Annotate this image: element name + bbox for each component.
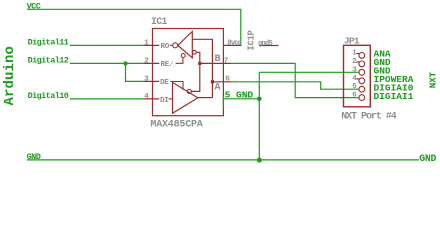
wire receiver A-input: [192, 39, 212, 97]
wire Digital11 to pin 1: [70, 44, 144, 46]
svg-text:GND: GND: [419, 153, 436, 164]
receiver enable bubble: [181, 54, 185, 58]
wire Digital10 to pin 4: [70, 98, 144, 100]
wire pin3 stub: [143, 80, 159, 82]
svg-text:Digital11: Digital11: [28, 38, 69, 48]
svg-text:5: 5: [352, 83, 357, 91]
svg-text:8vcc: 8vcc: [227, 40, 241, 48]
connector JP1 box: [344, 45, 371, 107]
power pin VCC line of IC1P: [223, 44, 241, 46]
svg-text:NXT: NXT: [427, 71, 438, 88]
wire pin1 stub: [143, 44, 159, 46]
svg-text:3: 3: [144, 76, 149, 84]
svg-text:DI: DI: [160, 97, 169, 105]
svg-text:B: B: [215, 54, 221, 65]
svg-text:Digital12: Digital12: [28, 56, 69, 66]
svg-text:1: 1: [352, 49, 357, 57]
svg-text:DIGIAI1: DIGIAI1: [374, 91, 414, 102]
svg-text:Digital10: Digital10: [28, 91, 69, 101]
wire Digital12 branch to pin 3: [126, 63, 144, 81]
svg-text:RO: RO: [161, 43, 170, 51]
receiver output bubble: [173, 43, 178, 48]
svg-text:IC1P: IC1P: [246, 29, 256, 50]
wire pin2 stub: [143, 62, 159, 64]
svg-text:2: 2: [352, 58, 357, 66]
wire RO to bubble: [170, 44, 173, 46]
svg-text:MAX485CPA: MAX485CPA: [150, 120, 202, 131]
pin 4 tick: [356, 78, 359, 80]
svg-text:4: 4: [144, 93, 149, 101]
svg-text:4: 4: [352, 75, 357, 83]
wire pin4 stub: [143, 98, 159, 100]
svg-text:gnd5: gnd5: [258, 40, 273, 48]
wire GND bottom rail: [27, 159, 419, 161]
wire driver inverted output to B: [192, 63, 200, 91]
connector pin 5 circle: [359, 86, 365, 92]
svg-text:7: 7: [224, 57, 229, 65]
wire GND overlay on box edge: [222, 96, 224, 107]
connector pin 1 circle: [359, 53, 365, 59]
wire B net to connector pin6: [232, 63, 359, 97]
wire pin5 GND to junction: [223, 98, 259, 100]
svg-text:Arduino: Arduino: [2, 46, 18, 106]
pin 2 tick: [356, 61, 359, 63]
svg-text:DE: DE: [160, 79, 169, 87]
pin B line: [200, 62, 232, 64]
wire DE to driver enable: [170, 82, 183, 90]
driver (transmitter) triangle: [173, 82, 198, 113]
junction on pin B line: [198, 62, 201, 65]
junction GND net: [257, 97, 262, 102]
wire DI stub to driver: [169, 98, 173, 100]
connector pin 3 circle: [359, 69, 365, 75]
wire GND vertical to rail: [258, 72, 260, 160]
wire GND to connector pin3: [259, 71, 359, 73]
svg-text:6: 6: [225, 76, 230, 84]
svg-text:IC1: IC1: [151, 17, 167, 28]
connector pin 2 circle: [359, 61, 365, 67]
junction on pin A line: [211, 80, 214, 83]
svg-text:RE∕: RE∕: [161, 61, 174, 69]
driver inverting bubble: [187, 89, 191, 93]
pin A line: [212, 81, 231, 83]
svg-text:NXT Port #4: NXT Port #4: [341, 111, 397, 122]
svg-text:1: 1: [144, 40, 149, 48]
wire RE to enable bubble: [176, 58, 183, 64]
wire VCC rail: [27, 9, 241, 44]
svg-text:2: 2: [144, 58, 149, 66]
svg-text:3: 3: [352, 66, 357, 74]
power pin GND line of IC1P: [259, 45, 278, 47]
svg-text:A: A: [215, 83, 221, 94]
wire receiver B-input to B line: [196, 52, 200, 63]
wire Digital12 to pin 2: [70, 62, 144, 64]
svg-text:GND: GND: [27, 152, 41, 162]
junction GND rail: [257, 158, 262, 163]
connector pin 4 circle: [359, 78, 365, 84]
wire A net to connector pin5: [232, 82, 359, 89]
receiver B-input bubble: [193, 50, 197, 54]
svg-text:6: 6: [352, 92, 357, 100]
junction on Digital12 net: [123, 61, 127, 65]
receiver triangle: [178, 32, 193, 58]
pin 1 tick: [356, 53, 359, 55]
wire driver output: [197, 97, 212, 99]
op-amp IC1 box: [153, 29, 224, 116]
connector pin 6 circle: [359, 95, 365, 101]
